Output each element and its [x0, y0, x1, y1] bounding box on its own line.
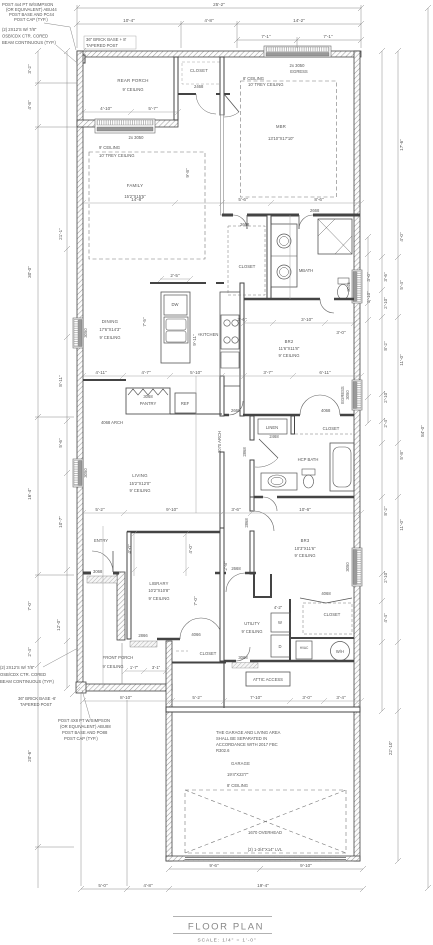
- svg-text:9' CEILING: 9' CEILING: [129, 488, 150, 493]
- svg-text:11'-0": 11'-0": [399, 354, 404, 366]
- attic access box: [246, 672, 290, 686]
- svg-text:SCALE: 1/4" = 1'-0": SCALE: 1/4" = 1'-0": [198, 938, 257, 944]
- svg-text:9' CEILING: 9' CEILING: [278, 353, 299, 358]
- svg-text:(2) 2X12'S W/ 7/8": (2) 2X12'S W/ 7/8": [2, 27, 37, 32]
- svg-text:POST BASE AND PO88: POST BASE AND PO88: [62, 730, 108, 735]
- linen cabinet: [258, 419, 287, 439]
- svg-text:EGRESS: EGRESS: [290, 69, 308, 74]
- svg-text:6'-11": 6'-11": [319, 370, 331, 375]
- outer wall right: [354, 51, 360, 861]
- top-left note block: [2, 2, 57, 45]
- svg-text:CLOSET: CLOSET: [324, 612, 341, 617]
- svg-text:8' CEILING: 8' CEILING: [227, 783, 248, 788]
- garage left wall: [166, 641, 172, 861]
- svg-text:5'-6": 5'-6": [58, 438, 63, 448]
- garage top wall: [166, 707, 360, 712]
- br2 dim row: [241, 320, 357, 326]
- svg-text:3'-0": 3'-0": [302, 695, 312, 700]
- svg-text:CLOSET: CLOSET: [190, 68, 208, 73]
- svg-text:3050: 3050: [345, 562, 350, 572]
- svg-text:9'-6": 9'-6": [209, 863, 219, 868]
- closet label (entry closet): [182, 62, 222, 84]
- svg-text:2'-10": 2'-10": [383, 297, 388, 309]
- svg-text:7'-1": 7'-1": [261, 34, 271, 39]
- svg-text:3'-6": 3'-6": [231, 507, 241, 512]
- svg-text:MBATH: MBATH: [299, 268, 313, 273]
- svg-text:17'-6": 17'-6": [399, 139, 404, 151]
- svg-text:10'3"X11'6": 10'3"X11'6": [294, 546, 316, 551]
- svg-text:2'-4": 2'-4": [27, 647, 32, 657]
- svg-text:2668: 2668: [310, 208, 320, 213]
- svg-text:4'-2": 4'-2": [274, 605, 283, 610]
- hcp tub: [330, 443, 354, 491]
- svg-text:BEAM CONTINUOUS (TYP.): BEAM CONTINUOUS (TYP.): [0, 679, 55, 684]
- svg-text:LINEN: LINEN: [266, 425, 278, 430]
- wall porch/closet divider: [174, 57, 178, 120]
- svg-text:SHALL BE SEPARATED IN: SHALL BE SEPARATED IN: [216, 736, 267, 741]
- svg-text:UTILITY: UTILITY: [244, 621, 260, 626]
- svg-text:TAPERED POST: TAPERED POST: [20, 702, 52, 707]
- svg-text:(2) 2X12'S W/ 7/8": (2) 2X12'S W/ 7/8": [0, 665, 35, 670]
- svg-text:3068: 3068: [143, 394, 153, 399]
- dim row top 1: [74, 5, 364, 48]
- svg-text:5'-0": 5'-0": [98, 883, 108, 888]
- svg-text:10'2"X10'8": 10'2"X10'8": [148, 588, 170, 593]
- svg-text:84'-0": 84'-0": [420, 425, 425, 437]
- family/kitchen divider wall: [150, 282, 206, 284]
- front porch corner post: [76, 682, 86, 693]
- hcp bath bottom wall: [251, 497, 354, 511]
- svg-text:3068: 3068: [238, 655, 248, 660]
- interior vertical dims: [103, 215, 290, 688]
- svg-text:4068 ARCH: 4068 ARCH: [101, 420, 123, 425]
- svg-text:REAR PORCH: REAR PORCH: [117, 78, 148, 83]
- svg-text:4'-8": 4'-8": [143, 883, 153, 888]
- hall bottom wall y415: [222, 395, 354, 415]
- right margin dim line 2: [395, 48, 401, 864]
- svg-text:3050: 3050: [345, 390, 350, 400]
- svg-text:2x 3050: 2x 3050: [129, 135, 145, 140]
- svg-text:HVAC: HVAC: [300, 646, 309, 650]
- library walls: [127, 532, 222, 639]
- svg-text:DINING: DINING: [102, 319, 119, 324]
- rear porch bottom wall: [77, 120, 178, 127]
- svg-text:2668: 2668: [231, 408, 241, 413]
- right margin overall dim: [425, 5, 431, 891]
- svg-text:FLOOR PLAN: FLOOR PLAN: [188, 922, 264, 933]
- svg-text:3068: 3068: [93, 569, 103, 574]
- svg-text:FRONT PORCH: FRONT PORCH: [103, 655, 134, 660]
- svg-text:ACCORDANCE WITH 2017 FBC: ACCORDANCE WITH 2017 FBC: [216, 742, 278, 747]
- brick base note top: [86, 37, 127, 48]
- svg-text:8'-2": 8'-2": [383, 341, 388, 351]
- window MBR top 2x3050 egress: [264, 46, 331, 74]
- hcp bath left wall w/ 2888 door: [242, 416, 278, 497]
- svg-text:15'2"X12'0": 15'2"X12'0": [129, 481, 151, 486]
- wall pantry to living: [170, 413, 222, 415]
- outer wall left: [77, 51, 83, 691]
- svg-text:10'-4": 10'-4": [123, 18, 135, 23]
- svg-text:9' CEILING: 9' CEILING: [102, 664, 123, 669]
- svg-text:9' CEILING: 9' CEILING: [241, 629, 262, 634]
- svg-text:7'-5": 7'-5": [142, 317, 147, 327]
- svg-text:W/H: W/H: [336, 649, 344, 654]
- svg-text:2'-8": 2'-8": [223, 561, 228, 571]
- garage door opening: [185, 857, 346, 861]
- svg-text:4068: 4068: [321, 591, 331, 596]
- outer wall top: [77, 51, 361, 57]
- garage bottom wall: [166, 856, 360, 861]
- svg-text:4066: 4066: [191, 632, 201, 637]
- svg-text:4'-0": 4'-0": [399, 232, 404, 242]
- MBR bottom wall: [222, 208, 360, 229]
- BR3 left wall w/ 2868 door: [244, 497, 274, 574]
- svg-text:14'-8": 14'-8": [131, 197, 143, 202]
- svg-text:16'-4": 16'-4": [27, 488, 32, 500]
- svg-text:4'-0": 4'-0": [188, 544, 193, 554]
- svg-text:CLOSET: CLOSET: [239, 264, 256, 269]
- svg-text:7'-0": 7'-0": [193, 596, 198, 606]
- svg-text:10'-6": 10'-6": [299, 507, 311, 512]
- svg-text:8' CEILING: 8' CEILING: [243, 76, 264, 81]
- MBR left wall: [220, 57, 224, 115]
- hall wall x222 (living side) with arch: [217, 376, 224, 528]
- svg-text:W: W: [278, 620, 282, 625]
- BR3 closet: [300, 591, 352, 634]
- svg-text:21'-1": 21'-1": [58, 228, 63, 240]
- svg-text:1670 OVERHEAD: 1670 OVERHEAD: [248, 830, 282, 835]
- pantry: [126, 388, 170, 414]
- svg-text:9'-10": 9'-10": [300, 863, 312, 868]
- svg-text:1'-7": 1'-7": [130, 665, 139, 670]
- library bottom wall: [130, 618, 222, 647]
- window rear porch 2x3050: [95, 119, 155, 140]
- svg-text:2x 3050: 2x 3050: [290, 63, 306, 68]
- MBR trey ceiling dashed: [241, 81, 337, 197]
- kitchen island: [161, 292, 190, 363]
- svg-text:7'-10": 7'-10": [250, 695, 262, 700]
- svg-text:BR3: BR3: [301, 538, 310, 543]
- entry front wall jog: [117, 572, 125, 640]
- svg-text:13'10"X17'10": 13'10"X17'10": [268, 136, 295, 141]
- svg-text:17'6"X14'3": 17'6"X14'3": [99, 327, 121, 332]
- master closet dashed: [228, 226, 265, 295]
- svg-text:MBR: MBR: [276, 124, 286, 129]
- dim row top 3: [234, 37, 364, 48]
- front porch bottom wall: [77, 684, 172, 691]
- svg-text:9' CEILING: 9' CEILING: [148, 596, 169, 601]
- svg-text:EGRESS: EGRESS: [340, 386, 345, 404]
- interior dim row y701: [80, 698, 364, 704]
- svg-text:25'-2": 25'-2": [213, 2, 225, 7]
- shower: [318, 219, 352, 254]
- utility bottom wall + garage door: [222, 647, 354, 708]
- BR3 closet bottom wall / mech top: [290, 637, 354, 639]
- svg-text:20'-6": 20'-6": [27, 750, 32, 762]
- svg-text:3'-0": 3'-0": [336, 330, 346, 335]
- svg-text:POST CAP (TYP.): POST CAP (TYP.): [14, 17, 48, 22]
- mid-left note block: [0, 665, 111, 741]
- interior dim row y376: [80, 373, 364, 379]
- left margin dim line inner: [64, 48, 70, 691]
- svg-text:30'-0": 30'-0": [27, 266, 32, 278]
- svg-text:12'-0": 12'-0": [56, 619, 61, 631]
- svg-text:BEAM CONTINUOUS (TYP.): BEAM CONTINUOUS (TYP.): [2, 40, 57, 45]
- svg-text:11'6"X11'8": 11'6"X11'8": [279, 346, 300, 351]
- svg-text:TAPERED POST: TAPERED POST: [86, 43, 118, 48]
- svg-text:36" BRICK BASE -6': 36" BRICK BASE -6': [18, 696, 56, 701]
- svg-text:4'-7": 4'-7": [141, 370, 151, 375]
- utility top wall: [215, 566, 256, 592]
- garage overhead door dashed: [185, 790, 346, 853]
- svg-text:4'-8": 4'-8": [204, 18, 214, 23]
- svg-text:10' TREY CEILING: 10' TREY CEILING: [248, 82, 284, 87]
- svg-text:3'-0": 3'-0": [366, 272, 371, 282]
- hvac: [296, 641, 312, 659]
- svg-text:5'-2": 5'-2": [95, 507, 105, 512]
- svg-text:10' TREY CEILING: 10' TREY CEILING: [99, 153, 135, 158]
- svg-text:10'-7": 10'-7": [58, 516, 63, 528]
- window left wall 3050 (living): [73, 459, 88, 487]
- svg-text:9'-8": 9'-8": [185, 168, 190, 178]
- svg-text:8'-11": 8'-11": [58, 375, 63, 387]
- svg-text:LIVING: LIVING: [132, 473, 148, 478]
- svg-text:POST CAP (TYP.): POST CAP (TYP.): [64, 736, 98, 741]
- window right wall (br3): [345, 548, 362, 586]
- svg-text:2'-10": 2'-10": [383, 391, 388, 403]
- interior dim row y513: [80, 510, 364, 516]
- svg-text:R302.6: R302.6: [216, 748, 230, 753]
- svg-text:REF: REF: [181, 401, 190, 406]
- kitchen/BR2 wall: [240, 283, 244, 416]
- mbath bottom wall: [244, 299, 354, 313]
- svg-text:4'-11": 4'-11": [95, 370, 107, 375]
- svg-text:9' CEILING: 9' CEILING: [122, 87, 143, 92]
- svg-text:7'-1": 7'-1": [323, 34, 333, 39]
- svg-text:OSB/CDX CTR. CORED: OSB/CDX CTR. CORED: [2, 34, 48, 39]
- svg-text:FAMILY: FAMILY: [127, 183, 144, 188]
- hcp sink: [261, 473, 297, 490]
- svg-text:2868: 2868: [242, 447, 247, 457]
- svg-text:4'-4": 4'-4": [383, 613, 388, 623]
- svg-text:THE GARAGE AND LIVING AREA: THE GARAGE AND LIVING AREA: [216, 730, 281, 735]
- dim row top 2: [74, 21, 364, 48]
- hall/utility left wall: [220, 528, 224, 661]
- hcp wc: [302, 469, 315, 488]
- svg-text:(OR EQUIVALENT) ABU88: (OR EQUIVALENT) ABU88: [60, 724, 111, 729]
- svg-text:2668: 2668: [231, 566, 241, 571]
- svg-text:5'-2": 5'-2": [192, 695, 202, 700]
- svg-text:5'-4": 5'-4": [399, 280, 404, 290]
- svg-text:CLOSET: CLOSET: [200, 651, 217, 656]
- svg-text:HCP BATH: HCP BATH: [298, 457, 319, 462]
- svg-text:GARAGE: GARAGE: [231, 761, 250, 766]
- wall segment left of pantry: [83, 379, 126, 381]
- svg-text:3'-10": 3'-10": [301, 317, 313, 322]
- garage bottom dim row: [166, 866, 366, 872]
- BR3 niche walls: [253, 574, 255, 598]
- svg-text:9' CEILING: 9' CEILING: [99, 145, 120, 150]
- svg-text:(2) 1-3/4"X14" LVL: (2) 1-3/4"X14" LVL: [248, 847, 283, 852]
- svg-text:2866: 2866: [138, 633, 148, 638]
- svg-text:9'-11": 9'-11": [192, 334, 197, 346]
- svg-text:22'-10": 22'-10": [388, 741, 393, 756]
- svg-text:2'-5": 2'-5": [170, 273, 180, 278]
- svg-text:3070 ARCH: 3070 ARCH: [217, 431, 222, 453]
- svg-text:2468: 2468: [194, 84, 204, 89]
- svg-text:4'-10": 4'-10": [100, 106, 112, 111]
- svg-text:4068: 4068: [321, 408, 331, 413]
- family trey ceiling dashed: [89, 152, 205, 259]
- svg-text:19'4"X23'7": 19'4"X23'7": [227, 772, 249, 777]
- window left wall 3050 (dining): [73, 318, 88, 348]
- svg-text:2868: 2868: [244, 518, 249, 528]
- svg-text:5'-6": 5'-6": [238, 197, 248, 202]
- svg-text:19'-4": 19'-4": [257, 883, 269, 888]
- svg-text:8'-10": 8'-10": [120, 695, 132, 700]
- entry front wall + front door 3068: [83, 551, 119, 583]
- svg-text:DW: DW: [172, 302, 179, 307]
- svg-text:9' CEILING: 9' CEILING: [294, 553, 315, 558]
- master closet right wall: [267, 215, 271, 299]
- svg-text:3'-4": 3'-4": [336, 695, 346, 700]
- svg-text:2'-4": 2'-4": [383, 418, 388, 428]
- window right wall (mbath/br2): [346, 270, 371, 303]
- svg-text:36" BRICK BASE + 8': 36" BRICK BASE + 8': [86, 37, 127, 42]
- svg-text:3'-7": 3'-7": [263, 370, 273, 375]
- interior dim row y108: [80, 109, 181, 115]
- mbath vanity: [271, 224, 297, 287]
- kitchen counter + range: [220, 292, 240, 386]
- svg-text:9'-10": 9'-10": [166, 507, 178, 512]
- mbath wc: [338, 278, 350, 300]
- svg-text:3'-2": 3'-2": [27, 64, 32, 74]
- svg-text:3'-6": 3'-6": [237, 317, 247, 322]
- svg-text:4'-0": 4'-0": [127, 544, 132, 554]
- title floor plan: [173, 917, 272, 944]
- svg-text:9' CEILING: 9' CEILING: [99, 335, 120, 340]
- svg-text:5'-8": 5'-8": [399, 450, 404, 460]
- svg-text:ENTRY: ENTRY: [94, 538, 108, 543]
- svg-text:×KITCHEN: ×KITCHEN: [198, 332, 219, 337]
- bottom dim row: [78, 692, 366, 892]
- svg-text:2468: 2468: [269, 434, 279, 439]
- svg-text:BR2: BR2: [285, 339, 294, 344]
- window right wall 3050 egress (hcp bath): [340, 380, 362, 410]
- svg-text:7'-0": 7'-0": [27, 601, 32, 611]
- svg-text:5'-7": 5'-7": [148, 106, 158, 111]
- left margin dim line outer: [35, 48, 77, 888]
- svg-text:3050: 3050: [83, 328, 88, 338]
- interior dim row y203: [80, 200, 364, 206]
- svg-text:3050: 3050: [83, 468, 88, 478]
- svg-text:5'-10": 5'-10": [190, 370, 202, 375]
- water heater: [331, 642, 350, 661]
- svg-text:4'-8": 4'-8": [27, 100, 32, 110]
- svg-text:ATTIC ACCESS: ATTIC ACCESS: [253, 677, 283, 682]
- svg-text:8'-2": 8'-2": [383, 506, 388, 516]
- washer dryer: [271, 605, 290, 657]
- svg-text:D: D: [278, 644, 281, 649]
- corner post top-left: [77, 55, 85, 63]
- svg-text:14'-2": 14'-2": [293, 18, 305, 23]
- svg-text:OSB/CDX CTR. CORED: OSB/CDX CTR. CORED: [0, 672, 46, 677]
- right margin dim line 1: [379, 48, 385, 714]
- svg-text:3'-6": 3'-6": [383, 272, 388, 282]
- svg-text:2'-10": 2'-10": [383, 571, 388, 583]
- ref: [175, 393, 196, 413]
- svg-text:LIBRARY: LIBRARY: [149, 581, 168, 586]
- svg-text:11'-0": 11'-0": [399, 519, 404, 531]
- svg-text:8'-6": 8'-6": [314, 197, 324, 202]
- svg-text:CLOSET: CLOSET: [323, 426, 340, 431]
- entry closet bottom wall: [178, 84, 230, 114]
- closet door into MBR: [224, 94, 239, 117]
- svg-text:POST 4X8 PT W/SIMPSON: POST 4X8 PT W/SIMPSON: [58, 718, 110, 723]
- svg-text:PANTRY: PANTRY: [140, 401, 157, 406]
- svg-text:3'-1": 3'-1": [152, 665, 161, 670]
- leader lines top-left: [44, 23, 76, 62]
